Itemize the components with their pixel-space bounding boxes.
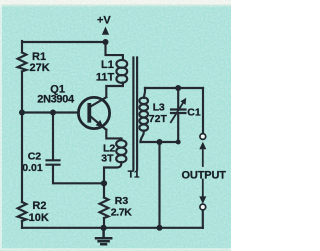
output arrowhead down — [199, 196, 206, 204]
wire L2 bottom lead — [104, 162, 121, 183]
capacitor C2 — [47, 160, 60, 164]
svg-text:C1: C1 — [187, 106, 201, 118]
wire tank bottom — [141, 141, 179, 143]
svg-text:+V: +V — [97, 15, 111, 27]
svg-text:L1: L1 — [101, 59, 114, 71]
transistor Q1 emitter stroke — [91, 117, 107, 130]
wire L3 bottom lead — [141, 131, 144, 142]
ground — [96, 228, 111, 245]
svg-text:T1: T1 — [128, 169, 140, 180]
svg-text:C2: C2 — [28, 151, 42, 163]
background speckle dark — [0, 0, 231, 251]
wire output top vertical — [202, 88, 204, 134]
svg-text:0.01: 0.01 — [22, 162, 43, 174]
junction rail ground — [101, 225, 107, 231]
wire output bottom vertical — [202, 210, 204, 228]
output arrow up shaft — [202, 148, 204, 166]
wire R3 to rail — [103, 218, 105, 228]
transformer core line 2 — [136, 58, 138, 170]
capacitor C1 arrow shaft — [171, 102, 184, 123]
inductor L2 3T — [116, 140, 126, 147]
resistor R2 — [18, 202, 27, 221]
svg-text:OUTPUT: OUTPUT — [182, 169, 227, 181]
svg-text:2N3904: 2N3904 — [37, 93, 75, 105]
transistor Q1 emitter arrowhead — [96, 120, 104, 127]
transistor Q1 collector stroke — [91, 97, 107, 106]
output terminal bottom — [200, 204, 206, 210]
wire left middle — [21, 71, 23, 202]
svg-text:10K: 10K — [29, 212, 49, 224]
junction tank bottom C1 — [176, 140, 181, 145]
wire base — [22, 111, 79, 113]
wire top rail — [22, 41, 106, 43]
svg-text:R3: R3 — [115, 195, 129, 207]
transformer core line 1 — [132, 58, 134, 170]
wire emitter down — [106, 130, 121, 140]
svg-text:R2: R2 — [32, 200, 46, 212]
capacitor C1 top lead — [177, 88, 179, 109]
inductor L1 11T — [116, 60, 127, 68]
junction tank top C1 — [175, 85, 181, 91]
junction base left — [19, 110, 25, 116]
svg-text:72T: 72T — [149, 113, 168, 125]
wire tank to ground rail — [158, 142, 160, 228]
capacitor C1 plates — [171, 110, 186, 114]
wire L2 bottom to R3 — [103, 183, 105, 197]
svg-text:11T: 11T — [96, 71, 115, 83]
junction +V rail — [103, 39, 109, 45]
transistor Q1 base bar — [87, 103, 91, 123]
wire L3 top lead — [144, 88, 145, 98]
wire left upper — [21, 41, 23, 53]
resistor R1 — [18, 53, 27, 72]
transistor Q1 circle — [78, 97, 109, 128]
svg-text:27K: 27K — [30, 62, 50, 74]
wire left lower — [21, 221, 23, 228]
wire C2 lower lead — [53, 166, 104, 184]
wire L1 to collector — [106, 83, 123, 98]
junction rail tank — [157, 225, 163, 231]
capacitor C1 bottom lead — [177, 114, 179, 142]
capacitor C1 arrowhead — [180, 98, 186, 105]
+V arrowhead — [102, 27, 109, 35]
svg-text:2.7K: 2.7K — [111, 206, 132, 218]
output arrowhead up — [199, 142, 206, 150]
inductor L3 72T — [139, 98, 148, 104]
junction C2/L2/R3 — [101, 180, 107, 186]
wire C2 upper lead — [52, 113, 54, 159]
wire tank top — [145, 87, 203, 89]
svg-text:3T: 3T — [101, 153, 114, 165]
output terminal top — [200, 134, 206, 140]
resistor R3 — [100, 198, 109, 219]
output arrow down shaft — [202, 180, 204, 198]
wire +V to L1 — [106, 42, 123, 60]
wire bottom rail — [22, 227, 203, 229]
background speckle light — [0, 0, 231, 251]
junction base C2 — [50, 110, 56, 116]
junction tank bottom — [157, 139, 163, 145]
